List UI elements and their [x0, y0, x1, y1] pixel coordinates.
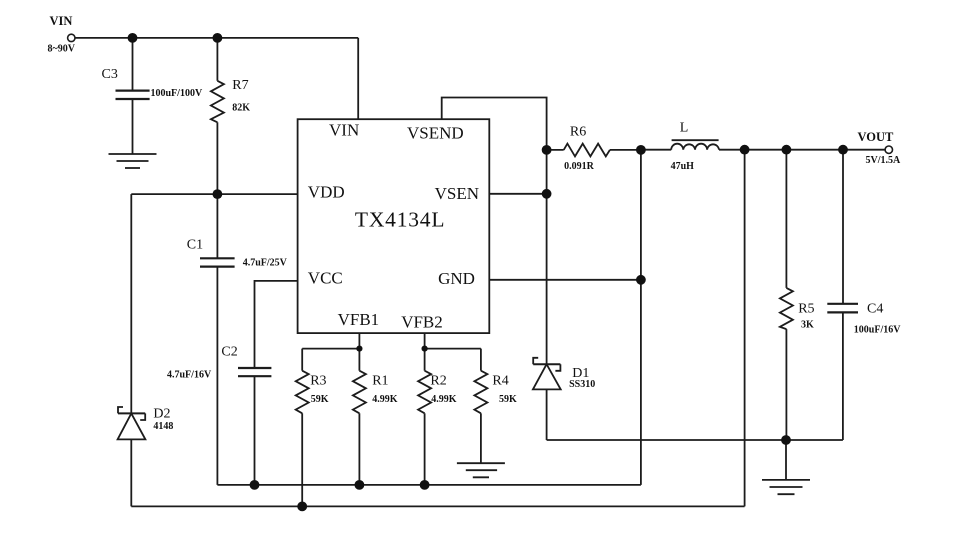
wire R1 top lead: [358, 349, 360, 371]
wire VCC: [255, 281, 298, 368]
node L right: [740, 145, 750, 155]
svg-text:C1: C1: [187, 238, 203, 253]
svg-text:R5: R5: [798, 302, 814, 317]
wire C4 top stem: [842, 150, 844, 304]
ground (R4): [457, 463, 505, 477]
wire R2 top lead: [424, 349, 426, 371]
wire C3 top stem: [132, 38, 134, 91]
node GND pin junction: [636, 275, 646, 285]
wire GND bus: [217, 484, 641, 486]
wire VFB2 stem: [424, 333, 426, 349]
op-amp U1 TX4134L box: [298, 119, 490, 333]
svg-text:8~90V: 8~90V: [48, 44, 76, 55]
ground (C3): [109, 154, 157, 168]
node R5 bottom: [781, 435, 791, 445]
wire R5 bottom stem: [785, 329, 787, 440]
svg-text:R1: R1: [372, 373, 388, 388]
svg-text:SS310: SS310: [569, 379, 595, 390]
node VFB2: [422, 346, 428, 352]
svg-text:R2: R2: [430, 373, 446, 388]
svg-text:VCC: VCC: [308, 269, 343, 288]
svg-text:100uF/100V: 100uF/100V: [151, 88, 203, 99]
ground (R5): [762, 480, 810, 494]
wire R7 bottom stem: [216, 122, 218, 194]
node R1 bottom: [355, 480, 365, 490]
node VDD junction: [213, 189, 223, 199]
svg-text:82K: 82K: [232, 103, 250, 114]
svg-text:VIN: VIN: [329, 120, 359, 139]
node C3 top: [128, 33, 138, 43]
resistor R7: [211, 81, 224, 123]
capacitor C1: [200, 258, 235, 266]
diode D2: [118, 407, 146, 439]
svg-text:L: L: [680, 121, 689, 136]
capacitor C4: [827, 304, 858, 313]
resistor R6: [564, 144, 610, 157]
wire R2 bottom lead: [424, 413, 426, 485]
wire R6 left lead: [547, 149, 564, 151]
svg-text:4148: 4148: [153, 421, 173, 432]
svg-text:47uH: 47uH: [671, 161, 695, 172]
node R2 bottom: [420, 480, 430, 490]
svg-text:0.091R: 0.091R: [564, 161, 595, 172]
node VSEN junction: [542, 189, 552, 199]
wire C1 bottom stem: [216, 267, 218, 485]
svg-text:4.7uF/25V: 4.7uF/25V: [243, 258, 288, 269]
wire ground rail right: [547, 439, 843, 441]
wire VIN pin drop: [357, 38, 359, 119]
svg-text:VFB1: VFB1: [338, 310, 380, 329]
wire VFB1 crossbar to R3: [302, 348, 359, 350]
svg-text:C3: C3: [102, 67, 118, 82]
node VFB1: [356, 346, 362, 352]
wire D2 bottom stem: [130, 439, 132, 506]
node SW after VSEND: [542, 145, 552, 155]
svg-text:4.99K: 4.99K: [431, 394, 457, 405]
wire C1 top stem: [216, 194, 218, 258]
wire R5 top stem: [785, 150, 787, 288]
svg-text:GND: GND: [438, 269, 475, 288]
wire L right lead: [719, 149, 745, 151]
svg-text:100uF/16V: 100uF/16V: [854, 325, 901, 336]
capacitor C2: [238, 368, 271, 376]
wire bottom bus VOUT net: [131, 505, 744, 507]
diode D1: [533, 358, 561, 390]
svg-text:5V/1.5A: 5V/1.5A: [866, 155, 902, 166]
wire VFB1 stem: [358, 333, 360, 349]
svg-text:4.7uF/16V: 4.7uF/16V: [167, 369, 212, 380]
wire left branch to D2: [130, 194, 132, 413]
svg-text:59K: 59K: [311, 394, 329, 405]
svg-text:VSEN: VSEN: [435, 184, 479, 203]
wire GND pin: [489, 279, 641, 281]
wire D1 bottom stem: [546, 389, 548, 440]
svg-text:R4: R4: [492, 373, 508, 388]
wire R7 top stem: [216, 38, 218, 81]
svg-text:D2: D2: [153, 406, 170, 421]
wire VSEND riser: [442, 98, 547, 150]
svg-text:59K: 59K: [499, 394, 517, 405]
inductor L: [671, 144, 719, 150]
resistor R4: [474, 371, 487, 414]
resistor R5: [780, 288, 793, 329]
wire VSEN: [489, 193, 546, 195]
node C2 bottom: [250, 480, 260, 490]
wire VOUT rail: [745, 149, 886, 151]
svg-text:3K: 3K: [801, 320, 814, 331]
svg-text:TX4134L: TX4134L: [355, 208, 445, 232]
resistor R2: [418, 371, 431, 414]
node R6 right / L left: [636, 145, 646, 155]
wire R1 bottom lead: [358, 413, 360, 485]
svg-text:C4: C4: [867, 302, 883, 317]
svg-text:R3: R3: [310, 373, 326, 388]
wire right riser to VOUT node: [744, 150, 746, 507]
wire R5 ground stem: [785, 440, 787, 480]
capacitor C3: [116, 91, 150, 99]
svg-text:R6: R6: [570, 124, 586, 139]
wire R4 bottom lead: [480, 413, 482, 462]
terminal VIN: [68, 34, 75, 41]
resistor R3: [296, 371, 309, 414]
svg-text:VIN: VIN: [50, 14, 73, 28]
wire C3 bottom stem: [132, 99, 134, 154]
wire R3 bottom lead: [301, 413, 303, 506]
svg-text:VSEND: VSEND: [407, 123, 464, 142]
wire node SW vertical: [546, 150, 548, 364]
resistor R1: [353, 371, 366, 414]
wire x641 vertical: [640, 150, 642, 485]
node R7 top: [213, 33, 223, 43]
node R5 top: [782, 145, 792, 155]
wire R4 top lead: [480, 349, 482, 371]
wire C2 bottom stem: [254, 376, 256, 485]
svg-text:R7: R7: [232, 78, 248, 93]
node C4 top: [838, 145, 848, 155]
wire L left lead: [641, 149, 671, 151]
svg-text:4.99K: 4.99K: [372, 394, 398, 405]
wire R3 top lead: [301, 349, 303, 371]
wire top VIN rail: [75, 37, 358, 39]
wire R6 right lead: [610, 149, 641, 151]
svg-text:VFB2: VFB2: [401, 313, 443, 332]
terminal VOUT: [885, 146, 892, 153]
wire C4 bottom riser: [842, 312, 844, 440]
wire VFB2 crossbar to R4: [425, 348, 481, 350]
svg-text:C2: C2: [221, 345, 237, 360]
svg-text:VDD: VDD: [308, 183, 345, 202]
wire VDD rail: [131, 193, 297, 195]
svg-text:VOUT: VOUT: [858, 130, 895, 144]
node R3 bottom: [297, 502, 307, 512]
